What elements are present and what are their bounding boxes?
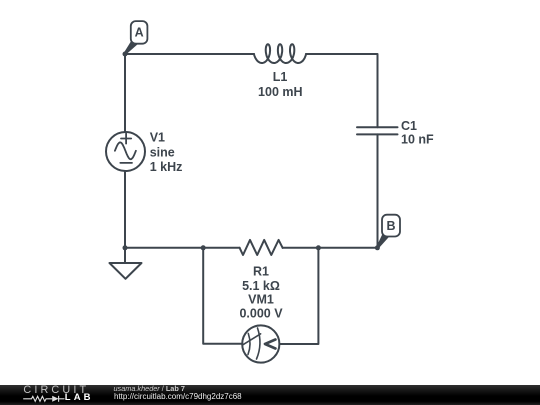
- junction VM right dot: [316, 245, 321, 250]
- CircuitLab logo word LAB: [65, 393, 94, 403]
- wire VM1 loop left: [203, 248, 242, 344]
- wire V1 to ground node: [124, 171, 126, 248]
- wire bottom (ground node to resistor): [125, 247, 240, 249]
- svg-text:R1: R1: [253, 264, 269, 278]
- svg-text:VM1: VM1: [248, 293, 274, 307]
- wire C1 to node B: [377, 134, 379, 247]
- capacitor C1: [357, 127, 398, 134]
- svg-text:V1: V1: [150, 130, 165, 144]
- resistor R1: [240, 240, 283, 255]
- svg-text:10 nF: 10 nF: [401, 133, 434, 147]
- svg-text:B: B: [386, 219, 395, 233]
- wire VM1 loop right: [279, 248, 318, 344]
- wire top (node A to inductor): [125, 53, 254, 55]
- logo resistor-diode line: [0, 385, 110, 405]
- junction VM left dot: [201, 245, 206, 250]
- svg-text:C1: C1: [401, 119, 417, 133]
- CircuitLab logo word CIRCUIT: [23, 385, 89, 396]
- wire left top (A to V1): [124, 54, 126, 132]
- svg-text:100 mH: 100 mH: [258, 85, 302, 99]
- ground: [110, 248, 142, 279]
- node B tail: [376, 234, 389, 248]
- node B bubble: [382, 215, 400, 237]
- voltmeter VM1: [242, 325, 279, 362]
- junction ground dot: [123, 245, 128, 250]
- inductor L1: [254, 44, 306, 63]
- svg-text:L1: L1: [273, 70, 288, 84]
- svg-text:5.1 kΩ: 5.1 kΩ: [242, 279, 280, 293]
- svg-text:1 kHz: 1 kHz: [150, 160, 183, 174]
- svg-text:A: A: [135, 26, 144, 40]
- svg-text:sine: sine: [150, 145, 175, 159]
- junction node B dot: [375, 245, 380, 250]
- node A tail: [124, 41, 138, 55]
- footer byline: [114, 385, 185, 393]
- footer bar: [0, 385, 540, 405]
- wire top right + right side down to C1: [306, 54, 378, 127]
- wire resistor to node B: [283, 247, 378, 249]
- junction node A dot: [123, 52, 128, 57]
- node A bubble: [131, 21, 148, 44]
- voltage source V1: [106, 132, 145, 171]
- svg-text:0.000 V: 0.000 V: [239, 307, 283, 321]
- footer url: [114, 393, 242, 401]
